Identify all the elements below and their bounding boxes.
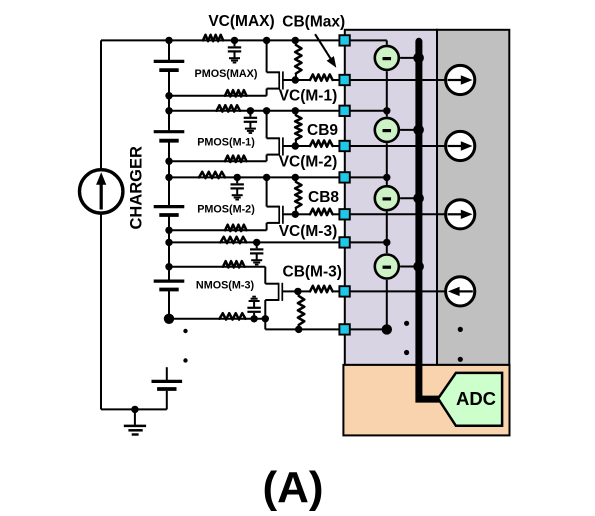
junction: chain / VC(M-3) xyxy=(383,239,390,246)
svg-text:CB(Max): CB(Max) xyxy=(282,14,345,31)
current source CHARGER xyxy=(80,170,123,213)
wire: chain c1-c2 xyxy=(386,71,388,116)
junction: bus tap 4 xyxy=(413,261,424,272)
resistor: CB(M-3) series R xyxy=(310,286,333,292)
transistor PMOS(M-1) xyxy=(266,111,268,139)
junction: stack node (sense) xyxy=(165,107,172,114)
resistor: NMOS gate-source R xyxy=(298,291,300,296)
resistor: PMOS(M-2) gate-source R xyxy=(295,177,297,182)
pin V- (cyan pad) xyxy=(339,324,349,334)
ellipsis: more cells xyxy=(183,329,187,333)
wire: CB resistor to pin xyxy=(333,213,344,215)
svg-text:VC(MAX): VC(MAX) xyxy=(208,13,274,30)
junction: bus tap 1 xyxy=(413,53,424,64)
battery cell M-1 xyxy=(154,130,185,133)
junction: filter C tap xyxy=(234,174,241,181)
svg-text:CB(M-3): CB(M-3) xyxy=(283,263,342,280)
wire: left rail above charger xyxy=(100,40,102,169)
ADC block xyxy=(438,373,502,426)
bus: ADC measurement bus (thick) xyxy=(419,41,439,399)
wire: VC(MAX) sense line xyxy=(169,39,344,41)
junction: gate pull-up R top xyxy=(292,174,299,181)
capacitor: VC(M-3) filter C to ground xyxy=(256,242,258,248)
junction: chain / VC(M-1) xyxy=(383,107,390,114)
wire: CB row 2 to level shifter xyxy=(350,145,447,147)
junction: gate node xyxy=(292,142,299,149)
wire: bottom rail xyxy=(101,408,167,410)
junction: filter C tap xyxy=(247,107,254,114)
ground (bottom rail) xyxy=(134,409,136,425)
pin CB8 (cyan pad) xyxy=(339,209,349,219)
wire: CB row 4 to level shifter xyxy=(350,290,447,292)
ADC panel (orange) xyxy=(343,365,509,436)
comparator cell 3 (green) xyxy=(375,186,399,210)
resistor: VC(M-1) filter R xyxy=(217,105,241,111)
wire: comparator 2 to ADC bus xyxy=(400,129,419,131)
wire: left rail below charger xyxy=(100,213,102,409)
pin CB(M-3) (cyan pad) xyxy=(339,286,349,296)
wire: CB resistor to pin xyxy=(333,145,344,147)
wire: stack column seg 5 xyxy=(168,290,170,319)
resistor: NMOS drain R xyxy=(223,261,245,267)
resistor: VC(M-3) filter R xyxy=(221,237,247,243)
pin VC(M-2) (cyan pad) xyxy=(339,172,349,182)
wire: comparator 1 to ADC bus xyxy=(400,57,419,59)
battery cell M (top) xyxy=(154,60,185,63)
wire: CB row 3 to level shifter xyxy=(350,213,447,215)
wire: CB resistor to pin xyxy=(333,79,344,81)
svg-text:CB8: CB8 xyxy=(308,189,339,206)
resistor: CB(M-1) series R xyxy=(310,140,333,146)
wire: VC(M-3) sense line xyxy=(169,241,344,243)
svg-text:VC(M-2): VC(M-2) xyxy=(279,154,338,171)
wire: CB row 1 to level shifter xyxy=(350,79,447,81)
junction: stack node (drain feed) xyxy=(165,263,172,270)
wire: CB resistor to pin xyxy=(333,290,344,292)
wire: comparator 4 to ADC bus xyxy=(400,266,419,268)
ellipsis: driver panel xyxy=(458,327,463,332)
balancer driver 2 (arrow circle) xyxy=(446,131,475,160)
junction: charger-ground xyxy=(131,406,138,413)
comparator cell 1 (green) xyxy=(375,46,399,70)
wire: V- pin to chain end xyxy=(350,328,387,330)
wire: VC(M-2) pin to chain xyxy=(350,176,387,178)
pin CB9 (cyan pad) xyxy=(339,141,349,151)
wire: stack column seg 1 xyxy=(168,40,170,61)
junction: gate R bottom xyxy=(295,326,302,333)
junction: filter C tap xyxy=(231,37,238,44)
svg-text:PMOS(M-2): PMOS(M-2) xyxy=(197,204,255,216)
wire: chain c3-c4 xyxy=(386,212,388,254)
svg-text:CHARGER: CHARGER xyxy=(128,146,146,230)
comparator cell 4 (green) xyxy=(375,255,399,279)
wire: PMOS(M-1) discharge return xyxy=(169,160,267,162)
resistor: PMOS(M-2) discharge R xyxy=(225,225,247,231)
transistor NMOS(M-3) xyxy=(264,267,266,284)
svg-text:(A): (A) xyxy=(262,463,323,512)
wire: cell- return line xyxy=(169,318,265,320)
junction: stack bottom node xyxy=(164,314,174,324)
capacitor: VC(MAX) filter C to ground xyxy=(234,40,236,46)
junction: chain / VC(M-2) xyxy=(383,174,390,181)
junction: gate node xyxy=(292,76,299,83)
wire: gate node to CB resistor xyxy=(298,290,310,292)
wire: gate node to CB resistor xyxy=(295,79,310,81)
svg-text:NMOS(M-3): NMOS(M-3) xyxy=(196,280,255,292)
svg-text:PMOS(M-1): PMOS(M-1) xyxy=(197,137,255,149)
junction: stack node (sense) xyxy=(165,174,172,181)
battery: bottom cell xyxy=(166,367,168,380)
resistor: PMOS(MAX) discharge R xyxy=(225,90,247,96)
junction: filter C tap xyxy=(253,239,260,246)
resistor: CB(MAX) series R xyxy=(310,74,333,80)
junction: stack node (sense 4) xyxy=(165,239,172,246)
svg-text:ADC: ADC xyxy=(456,388,496,409)
svg-text:PMOS(MAX): PMOS(MAX) xyxy=(195,68,258,80)
wire: gate node to CB resistor xyxy=(295,145,310,147)
wire: stack column seg 3 xyxy=(168,141,170,207)
junction: PMOS(MAX) drain tap xyxy=(263,37,270,44)
wire: V- sense line xyxy=(265,328,344,330)
junction: stack node (discharge) xyxy=(165,158,172,165)
ellipsis: monitor panel xyxy=(404,321,409,326)
wire: stack column seg 2 xyxy=(168,70,170,132)
pin CB(Max) (cyan pad) xyxy=(339,75,349,85)
wire: PMOS(M-2) discharge return xyxy=(169,229,267,231)
wire: VC(M-2) sense line xyxy=(169,176,344,178)
balancer driver 1 (arrow circle) xyxy=(446,65,475,94)
junction: PMOS(M-1) drain tap xyxy=(263,107,270,114)
wire: comparator 3 to ADC bus xyxy=(400,197,419,199)
wire: gate node to CB resistor xyxy=(295,213,310,215)
junction: bus tap 2 xyxy=(413,125,424,136)
resistor: PMOS(MAX) gate-source R xyxy=(295,40,297,45)
junction: stack node (discharge) xyxy=(165,92,172,99)
resistor: PMOS(M-1) gate-source R xyxy=(295,111,297,116)
junction: gate pull-up R top xyxy=(292,107,299,114)
resistor: CB(M-2) series R xyxy=(310,209,333,215)
transistor PMOS(M-2) xyxy=(266,177,268,206)
junction: bus tap 3 xyxy=(413,193,424,204)
wire: NMOS drain feed xyxy=(169,266,265,268)
resistor: cell- return R xyxy=(220,313,246,319)
wire: VC(MAX) pin to chain xyxy=(350,39,387,41)
capacitor: VC(M-2) filter C to ground xyxy=(236,177,238,183)
svg-text:VC(M-1): VC(M-1) xyxy=(279,88,338,105)
battery cell M-3 xyxy=(154,280,185,283)
comparator cell 2 (green) xyxy=(375,118,399,142)
wire: VC(M-1) sense line xyxy=(169,110,344,112)
wire: VC(M-1) pin to chain xyxy=(350,110,387,112)
balancer driver 3 (arrow circle) xyxy=(446,200,475,229)
wire: stack column seg 4 xyxy=(168,215,170,281)
capacitor: VC(M-1) filter C to ground xyxy=(249,111,251,117)
resistor: PMOS(M-1) discharge R xyxy=(225,156,247,162)
transistor PMOS(MAX) xyxy=(266,40,268,72)
junction: NMOS gate node xyxy=(294,288,301,295)
pin VC(M-1) (cyan pad) xyxy=(339,106,349,116)
battery cell M-2 xyxy=(154,205,185,208)
pin VC(M-3) (cyan pad) xyxy=(339,237,349,247)
junction: chain terminal (V-) xyxy=(382,324,392,334)
wire: PMOS(MAX) discharge return xyxy=(169,95,267,97)
arrow: CB(Max) pointer xyxy=(315,34,330,58)
capacitor: cell- filter C to ground (inverted) xyxy=(253,313,255,319)
svg-text:VC(M-3): VC(M-3) xyxy=(279,223,338,240)
balancer driver 4 (arrow circle) xyxy=(446,277,475,306)
junction: cell- C tap xyxy=(250,315,257,322)
junction: gate node xyxy=(292,211,299,218)
driver panel (gray) xyxy=(437,30,509,365)
resistor: VC(MAX) filter R xyxy=(203,35,223,41)
IC monitor panel (lavender) xyxy=(345,30,437,365)
wire: VC(M-3) pin to chain xyxy=(350,241,387,243)
junction: NMOS source crossing xyxy=(262,315,269,322)
junction: gate pull-up R top xyxy=(292,37,299,44)
wire: chain c2-c3 xyxy=(386,143,388,185)
junction: stack node (discharge) xyxy=(165,227,172,234)
junction: stack node (sense) xyxy=(165,37,172,44)
resistor: VC(M-2) filter R xyxy=(199,172,225,178)
wire: chain c4 to V- xyxy=(386,280,388,330)
svg-text:CB9: CB9 xyxy=(307,122,338,139)
pin VC(MAX) (cyan pad) xyxy=(339,35,349,45)
wire: top rail from charger to stack xyxy=(101,39,169,41)
junction: PMOS(M-2) drain tap xyxy=(263,174,270,181)
